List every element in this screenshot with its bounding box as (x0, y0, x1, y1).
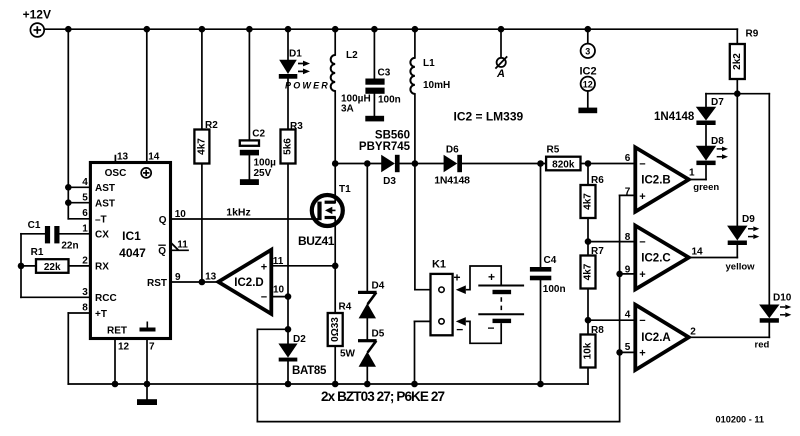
capacitor C4 100n (530, 164, 566, 385)
svg-text:L1: L1 (423, 58, 435, 69)
node pin10 tap (285, 293, 292, 300)
svg-text:R3: R3 (290, 121, 303, 132)
resistor R2 4k7 (194, 29, 218, 163)
svg-text:C2: C2 (252, 129, 265, 140)
ground below C2 (240, 155, 259, 185)
inductor L2 100uH 3A (331, 29, 371, 114)
svg-text:D4: D4 (372, 281, 385, 292)
svg-text:Q: Q (159, 215, 167, 226)
svg-text:−: − (487, 321, 494, 335)
svg-text:R1: R1 (31, 247, 44, 258)
svg-text:4: 4 (625, 310, 631, 321)
svg-text:IC2.C: IC2.C (641, 252, 670, 264)
svg-text:A: A (496, 68, 505, 80)
capacitor C2 100u electrolytic (240, 29, 276, 179)
svg-text:IC1: IC1 (122, 229, 141, 243)
svg-text:R9: R9 (746, 29, 759, 40)
svg-text:RST: RST (147, 278, 167, 289)
svg-text:3: 3 (585, 47, 590, 57)
node D4 top (364, 160, 371, 167)
svg-text:+: + (639, 348, 645, 360)
svg-text:4: 4 (82, 177, 88, 188)
wire pin4 (588, 319, 635, 321)
svg-text:D5: D5 (372, 329, 385, 340)
node rail/pin14 (144, 26, 151, 33)
svg-text:9: 9 (625, 264, 631, 275)
node rail/L1 (412, 26, 419, 33)
svg-text:R7: R7 (591, 246, 604, 257)
wire T1 source down to R4 (334, 218, 336, 314)
node RST/R2 (199, 279, 206, 286)
resistor R5 820k (546, 145, 580, 171)
wire D9 to IC2.C output (689, 245, 738, 258)
zener D4 BZT03 (358, 164, 385, 319)
wire IC2.D output to RST (171, 281, 219, 283)
svg-text:5: 5 (625, 342, 631, 353)
svg-text:+: + (639, 191, 645, 203)
svg-text:100n: 100n (543, 284, 566, 295)
svg-text:8: 8 (82, 303, 88, 314)
svg-text:T1: T1 (339, 184, 351, 195)
svg-text:100n: 100n (378, 95, 401, 106)
resistor R7 4k7 (581, 246, 605, 335)
node pin9 (616, 271, 623, 278)
svg-text:D2: D2 (293, 334, 306, 345)
svg-text:+: + (261, 261, 267, 273)
resistor R8 10k (581, 325, 605, 384)
LED D1 POWER (279, 29, 330, 90)
zener D5 P6KE (358, 329, 385, 367)
svg-text:4k7: 4k7 (197, 138, 208, 155)
node rail/left-bus (65, 26, 72, 33)
wire D6 to R5 (462, 163, 546, 165)
svg-text:1: 1 (689, 167, 695, 178)
wire pin 12 (114, 339, 116, 385)
wire left small bus (20, 234, 22, 297)
node pin12/gnd (112, 381, 119, 388)
battery symbol (456, 266, 524, 343)
svg-text:25V: 25V (254, 168, 272, 179)
svg-text:C4: C4 (544, 255, 557, 266)
supply +12V terminal (23, 8, 51, 37)
svg-text:10mH: 10mH (423, 80, 450, 91)
svg-text:CX: CX (95, 230, 109, 241)
wire IC2.D plus input (271, 265, 335, 267)
svg-text:D7: D7 (711, 97, 724, 108)
wire L2 to T1 drain (334, 91, 336, 202)
wire top +12V rail (44, 28, 737, 30)
wire L1 down to node (414, 94, 416, 164)
svg-text:13: 13 (205, 271, 217, 282)
wire D4 to D5 (366, 318, 368, 339)
svg-text:IC2 = LM339: IC2 = LM339 (454, 109, 524, 123)
svg-text:AST: AST (95, 199, 115, 210)
wire pin9 (620, 273, 636, 275)
wire D7 to D8 (705, 125, 707, 146)
node R7/R8 pin4 (585, 317, 592, 324)
svg-text:yellow: yellow (726, 262, 756, 273)
diode D2 BAT85 (278, 334, 327, 384)
node drain wire / D3 wire (332, 160, 339, 167)
svg-text:D9: D9 (742, 214, 755, 225)
svg-text:3A: 3A (341, 104, 354, 115)
resistor R6 4k7 (581, 164, 605, 256)
node R6/R7 pin8 (585, 238, 592, 245)
svg-text:1N4148: 1N4148 (434, 175, 470, 187)
svg-text:BAT85: BAT85 (292, 365, 327, 377)
node R1 junction (18, 263, 25, 270)
inductor L1 10mH (410, 29, 450, 94)
node rail/L2 (332, 26, 339, 33)
svg-text:C1: C1 (28, 220, 41, 231)
svg-text:11: 11 (177, 240, 188, 251)
svg-text:RET: RET (107, 325, 127, 336)
wire sense branch to comparators (257, 195, 635, 421)
wire R4 to ground rail (334, 346, 336, 384)
svg-text:R8: R8 (591, 325, 604, 336)
svg-text:+: + (488, 270, 495, 284)
svg-text:+: + (453, 271, 460, 285)
svg-text:D8: D8 (711, 136, 724, 147)
svg-text:6: 6 (82, 208, 88, 219)
svg-text:820k: 820k (552, 160, 575, 171)
svg-text:K1: K1 (432, 259, 446, 271)
wire pin 11 stub with slash (171, 243, 189, 251)
svg-text:IC2.B: IC2.B (641, 174, 670, 186)
svg-text:BUZ41: BUZ41 (298, 234, 335, 248)
testpoint A (495, 29, 507, 80)
IC1 4047 (82, 151, 188, 352)
node D2/gnd (285, 381, 292, 388)
svg-text:L2: L2 (346, 50, 358, 61)
wire switchnode to D3 (335, 163, 381, 165)
svg-text:4047: 4047 (119, 246, 146, 260)
svg-text:14: 14 (691, 247, 703, 258)
diode D6 1N4148 (434, 144, 470, 186)
svg-text:AST: AST (95, 183, 115, 194)
node rail/R2 (199, 26, 206, 33)
node rail/D1 (285, 26, 292, 33)
wire D8 to IC2.B output (689, 165, 706, 179)
wire R5 to pin6 (581, 163, 636, 165)
capacitor C1 (28, 220, 79, 252)
wire C1 left to bus (21, 233, 45, 235)
svg-text:–T: –T (95, 215, 107, 226)
wire R2 bottom to RST wire (201, 164, 203, 283)
svg-text:PBYR745: PBYR745 (359, 141, 411, 153)
resistor R1 22k (21, 247, 90, 273)
wire ground rail (68, 383, 588, 385)
svg-text:5W: 5W (340, 349, 356, 360)
svg-text:−: − (261, 292, 267, 304)
svg-text:14: 14 (148, 151, 160, 162)
node rail/C3 (371, 26, 378, 33)
svg-text:7: 7 (625, 187, 631, 198)
svg-text:OSC: OSC (105, 168, 127, 179)
svg-text:2: 2 (690, 326, 696, 337)
node rail/A (498, 26, 505, 33)
svg-text:D6: D6 (446, 144, 459, 155)
svg-text:8: 8 (625, 232, 631, 243)
op-amp IC2.D (205, 250, 284, 314)
svg-text:2k2: 2k2 (732, 53, 743, 70)
svg-text:4k7: 4k7 (583, 193, 594, 210)
wire to D7 (706, 94, 737, 107)
svg-text:R6: R6 (591, 175, 604, 186)
node D5/gnd (364, 381, 371, 388)
wire node to K1 plus (415, 164, 439, 290)
node R4/gnd (332, 381, 339, 388)
svg-text:22n: 22n (61, 241, 78, 252)
wire R3 bottom down to D2 (287, 164, 289, 344)
wire pin5 (620, 351, 636, 353)
node rail/C2 (246, 26, 253, 33)
svg-text:−: − (639, 159, 645, 171)
svg-text:010200 - 11: 010200 - 11 (716, 414, 765, 424)
svg-text:22k: 22k (44, 262, 61, 273)
wire CX to C1 (60, 233, 91, 235)
svg-text:RCC: RCC (95, 293, 117, 304)
svg-text:D3: D3 (383, 176, 396, 187)
diode D7 1N4148 (654, 97, 724, 125)
svg-text:R2: R2 (205, 120, 218, 131)
svg-text:5k6: 5k6 (283, 138, 294, 155)
wire K1 minus to ground rail (415, 321, 439, 384)
wire D3 to L1 node and onward (400, 163, 444, 165)
svg-text:13: 13 (117, 151, 129, 162)
svg-text:POWER: POWER (285, 81, 330, 91)
wire D10 to IC2.A output (689, 323, 770, 338)
svg-text:+T: +T (95, 309, 107, 320)
svg-text:D10: D10 (773, 293, 792, 304)
ground below IC1 (137, 384, 157, 405)
node D2 branch (285, 326, 292, 333)
svg-text:+: + (639, 269, 645, 281)
op-amp IC2.A (625, 305, 770, 370)
svg-text:6: 6 (625, 153, 631, 164)
svg-text:−: − (639, 315, 645, 327)
svg-text:IC2: IC2 (579, 65, 596, 77)
wire to D9 (736, 94, 738, 226)
wire pin 14 drop (146, 29, 148, 162)
transistor T1 BUZ41 MOSFET (298, 184, 351, 248)
LED D9 yellow (727, 214, 759, 245)
wire pin 7 (146, 339, 148, 385)
svg-text:12: 12 (118, 341, 130, 352)
svg-text:−: − (456, 322, 463, 336)
svg-text:+12V: +12V (23, 8, 51, 22)
resistor R9 2k2 (730, 29, 759, 94)
ground below C3 (365, 94, 384, 122)
node C4/gnd (537, 381, 544, 388)
svg-text:SB560: SB560 (375, 129, 410, 141)
node pin4 junction (65, 184, 72, 191)
IC2 power pins (578, 29, 597, 113)
svg-text:10: 10 (273, 284, 285, 295)
op-amp IC2.B (625, 147, 720, 211)
svg-text:−: − (639, 237, 645, 249)
svg-text:RX: RX (95, 262, 109, 273)
svg-text:10k: 10k (583, 342, 594, 359)
svg-text:100µ: 100µ (254, 158, 277, 169)
svg-text:1kHz: 1kHz (226, 206, 251, 218)
op-amp IC2.C (625, 226, 755, 290)
wire Q output 1kHz to gate (171, 206, 319, 219)
resistor R3 5k6 (281, 79, 304, 164)
node K1/gnd (411, 381, 418, 388)
svg-text:4k7: 4k7 (583, 263, 594, 280)
svg-text:green: green (693, 182, 719, 193)
svg-text:IC2.D: IC2.D (234, 277, 263, 289)
wire D5 to ground rail (366, 367, 368, 384)
node pin7/gnd (144, 381, 151, 388)
resistor R4 0R33 5W (328, 302, 356, 360)
node R5/R6 (585, 160, 592, 167)
wire pin8 (588, 241, 635, 243)
wire IC2.D minus input (271, 296, 288, 298)
connector K1 (431, 259, 464, 337)
node source/+input (332, 263, 339, 270)
wire +T (68, 313, 90, 384)
wire to D10 (737, 94, 769, 305)
svg-text:1N4148: 1N4148 (654, 111, 695, 123)
diode D3 SB560/PBYR745 (359, 129, 411, 187)
capacitor C3 100n (365, 29, 400, 105)
svg-text:red: red (755, 340, 770, 351)
LED D8 green (696, 136, 728, 165)
svg-text:R5: R5 (547, 145, 560, 156)
svg-text:C3: C3 (378, 68, 391, 79)
node LED feed (734, 90, 741, 97)
svg-text:5: 5 (82, 192, 88, 203)
svg-text:7: 7 (149, 341, 155, 352)
LED D10 red (759, 293, 792, 323)
node L1/K1/D6 (412, 160, 419, 167)
node C4/wire (537, 160, 544, 167)
node pin5 (616, 349, 623, 356)
svg-text:D1: D1 (289, 48, 302, 59)
svg-text:12: 12 (583, 79, 593, 89)
svg-text:2x BZT03 27; P6KE 27: 2x BZT03 27; P6KE 27 (321, 389, 444, 404)
svg-text:0Ω33: 0Ω33 (330, 317, 341, 342)
wire left bus to AST pins (68, 29, 90, 219)
wire RCC (21, 296, 90, 298)
svg-text:Q: Q (158, 246, 166, 257)
wire pin 13 stub (114, 156, 116, 163)
svg-text:IC2.A: IC2.A (641, 332, 670, 344)
svg-text:R4: R4 (339, 302, 352, 313)
node pin5 junction (65, 199, 72, 206)
node rail/IC2pwr (585, 26, 592, 33)
